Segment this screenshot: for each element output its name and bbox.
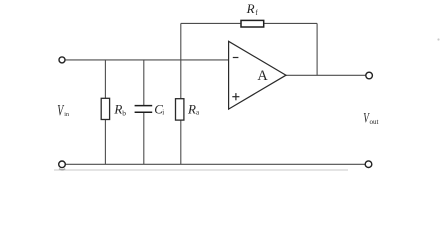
svg-text:in: in bbox=[64, 112, 69, 118]
svg-text:A: A bbox=[257, 68, 268, 84]
svg-text:R: R bbox=[187, 102, 196, 117]
svg-text:out: out bbox=[370, 118, 379, 126]
svg-text:b: b bbox=[122, 108, 126, 117]
svg-text:R: R bbox=[246, 1, 255, 16]
svg-text:i: i bbox=[162, 108, 164, 116]
svg-text:R: R bbox=[113, 102, 122, 117]
